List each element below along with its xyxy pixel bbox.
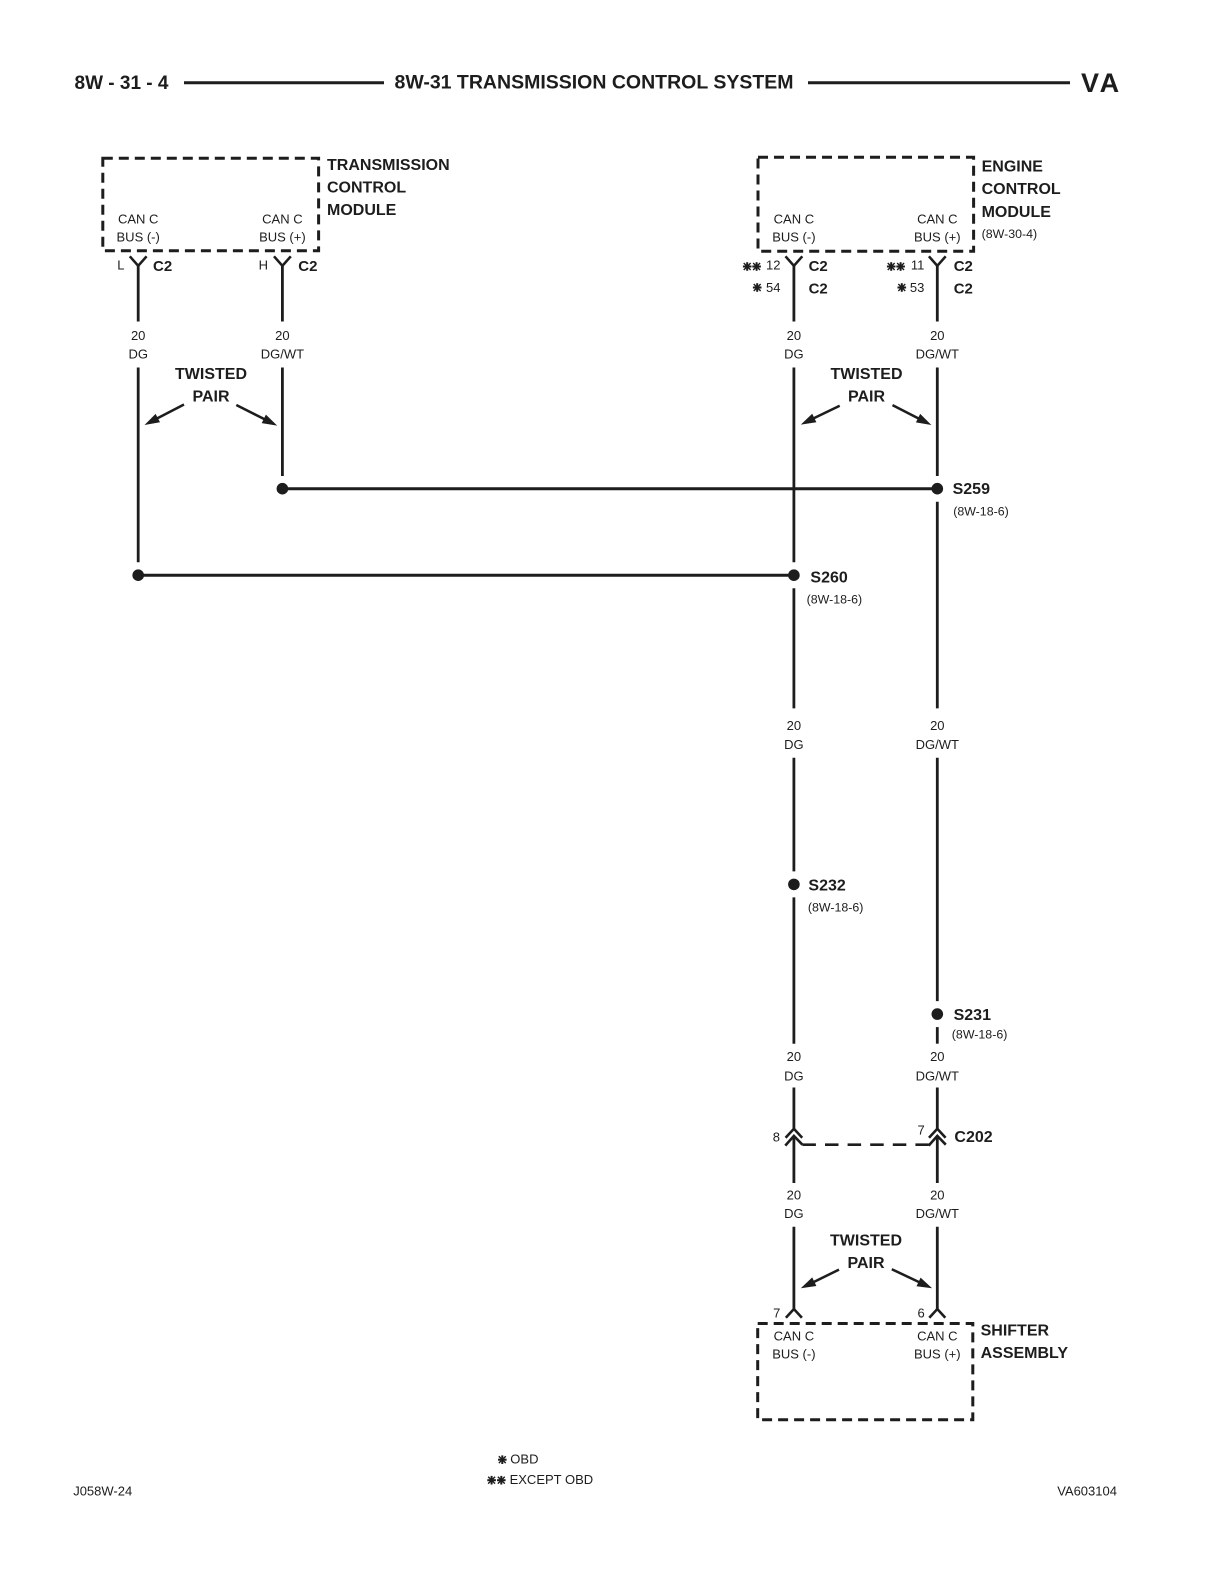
svg-text:PAIR: PAIR [192, 389, 229, 406]
svg-text:S231: S231 [954, 1007, 991, 1024]
svg-text:DG: DG [784, 737, 804, 752]
svg-text:DG/WT: DG/WT [261, 347, 304, 362]
svg-text:J058W-24: J058W-24 [73, 1484, 132, 1499]
svg-text:DG/WT: DG/WT [916, 737, 959, 752]
svg-text:11: 11 [911, 258, 925, 273]
svg-text:S232: S232 [808, 878, 845, 895]
svg-text:54: 54 [766, 280, 780, 295]
svg-text:TWISTED: TWISTED [830, 1232, 902, 1249]
svg-text:20: 20 [787, 1049, 801, 1064]
svg-text:CAN C: CAN C [118, 212, 158, 227]
svg-text:DG: DG [128, 347, 148, 362]
svg-text:53: 53 [910, 280, 924, 295]
svg-text:20: 20 [930, 718, 944, 733]
svg-text:20: 20 [930, 328, 944, 343]
svg-text:20: 20 [787, 328, 801, 343]
svg-text:BUS (+): BUS (+) [914, 1347, 961, 1362]
svg-text:S260: S260 [810, 570, 847, 587]
svg-text:BUS (-): BUS (-) [117, 230, 160, 245]
svg-text:BUS (-): BUS (-) [772, 1347, 815, 1362]
svg-text:(8W-18-6): (8W-18-6) [808, 901, 864, 915]
svg-text:CAN C: CAN C [774, 1329, 814, 1344]
svg-text:DG: DG [784, 347, 804, 362]
svg-text:C2: C2 [153, 258, 172, 275]
svg-text:PAIR: PAIR [847, 1255, 884, 1272]
svg-text:BUS (+): BUS (+) [914, 230, 961, 245]
svg-text:CAN C: CAN C [774, 212, 814, 227]
svg-text:MODULE: MODULE [327, 202, 397, 219]
svg-text:CAN C: CAN C [917, 212, 957, 227]
svg-text:C2: C2 [954, 258, 973, 275]
svg-text:(8W-18-6): (8W-18-6) [953, 505, 1009, 519]
svg-text:DG: DG [784, 1069, 804, 1084]
svg-text:6: 6 [917, 1306, 924, 1321]
svg-text:ASSEMBLY: ASSEMBLY [981, 1345, 1069, 1362]
svg-text:20: 20 [787, 1188, 801, 1203]
svg-text:H: H [259, 258, 268, 273]
svg-text:L: L [117, 258, 124, 273]
svg-text:BUS (+): BUS (+) [259, 230, 306, 245]
svg-text:20: 20 [131, 328, 145, 343]
svg-text:8W - 31 - 4: 8W - 31 - 4 [75, 73, 169, 94]
svg-text:CONTROL: CONTROL [327, 179, 406, 196]
svg-text:DG: DG [784, 1206, 804, 1221]
svg-text:7: 7 [773, 1306, 780, 1321]
svg-text:7: 7 [917, 1123, 924, 1138]
svg-text:(8W-18-6): (8W-18-6) [807, 592, 863, 606]
svg-text:C2: C2 [809, 258, 828, 275]
svg-text:MODULE: MODULE [982, 204, 1052, 221]
svg-text:OBD: OBD [510, 1452, 538, 1467]
svg-text:20: 20 [930, 1188, 944, 1203]
svg-text:S259: S259 [953, 481, 990, 498]
svg-text:C202: C202 [954, 1129, 992, 1146]
svg-text:(8W-18-6): (8W-18-6) [952, 1028, 1008, 1042]
svg-text:DG/WT: DG/WT [916, 1069, 959, 1084]
svg-text:SHIFTER: SHIFTER [981, 1323, 1050, 1340]
svg-text:TRANSMISSION: TRANSMISSION [327, 157, 450, 174]
svg-text:CONTROL: CONTROL [982, 181, 1061, 198]
svg-text:TWISTED: TWISTED [175, 366, 247, 383]
svg-text:PAIR: PAIR [848, 389, 885, 406]
svg-text:VA603104: VA603104 [1057, 1484, 1117, 1499]
svg-text:BUS (-): BUS (-) [772, 230, 815, 245]
svg-text:C2: C2 [298, 258, 317, 275]
svg-text:CAN C: CAN C [262, 212, 302, 227]
svg-text:VA: VA [1081, 68, 1122, 98]
svg-text:(8W-30-4): (8W-30-4) [982, 227, 1038, 241]
svg-text:20: 20 [787, 718, 801, 733]
svg-text:8: 8 [773, 1130, 780, 1145]
svg-text:12: 12 [766, 258, 780, 273]
svg-text:DG/WT: DG/WT [916, 1206, 959, 1221]
svg-text:DG/WT: DG/WT [916, 347, 959, 362]
svg-text:CAN C: CAN C [917, 1329, 957, 1344]
svg-text:ENGINE: ENGINE [982, 159, 1044, 176]
svg-text:20: 20 [275, 328, 289, 343]
svg-text:EXCEPT OBD: EXCEPT OBD [510, 1472, 594, 1487]
svg-text:C2: C2 [954, 281, 973, 298]
svg-text:8W-31 TRANSMISSION CONTROL SYS: 8W-31 TRANSMISSION CONTROL SYSTEM [394, 72, 793, 94]
svg-text:TWISTED: TWISTED [831, 366, 903, 383]
svg-text:20: 20 [930, 1049, 944, 1064]
svg-text:C2: C2 [809, 281, 828, 298]
